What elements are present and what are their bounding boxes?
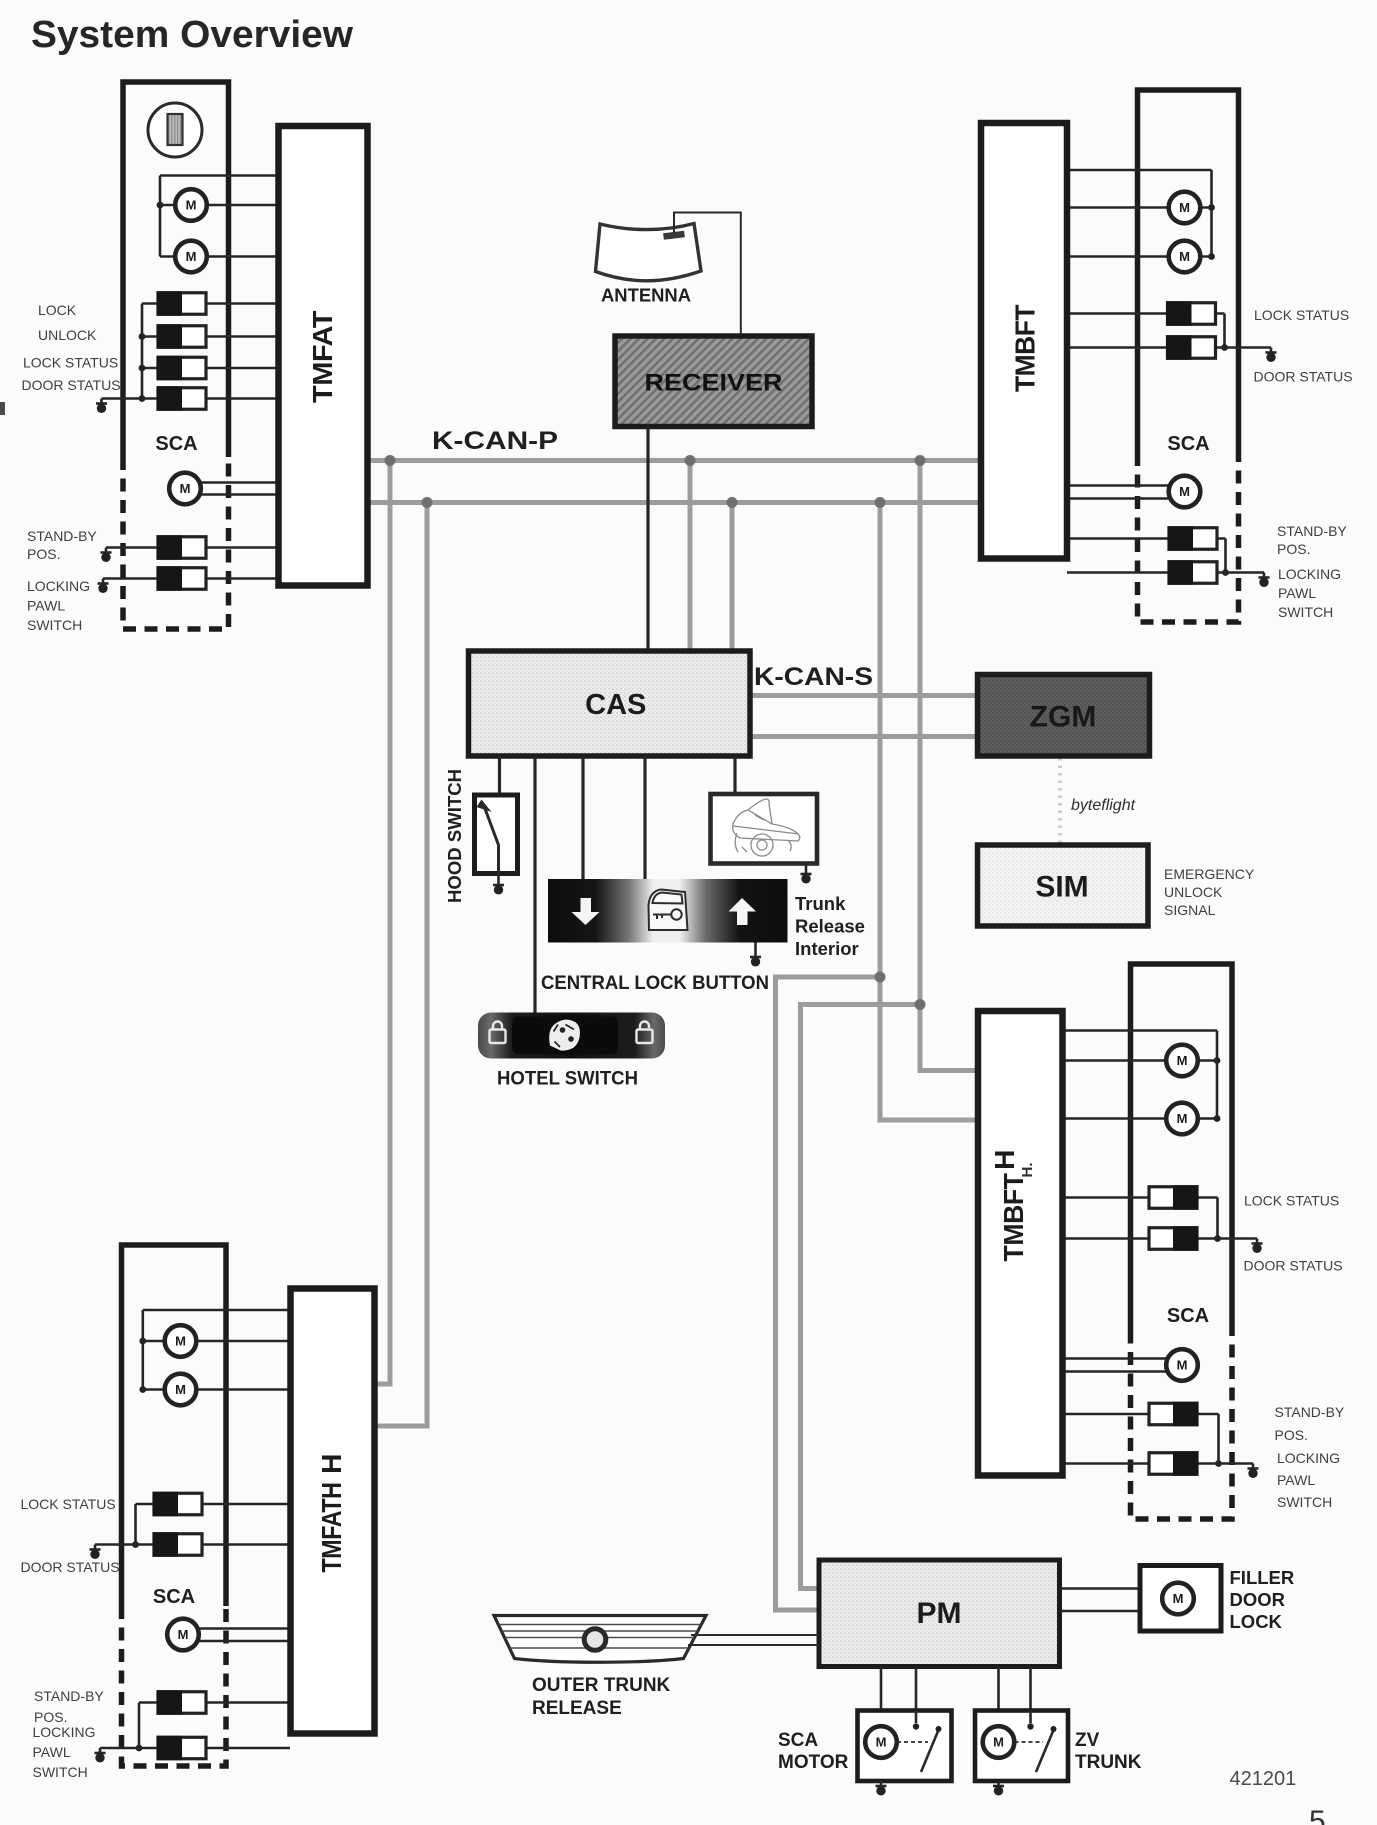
svg-text:K-CAN-S: K-CAN-S	[754, 663, 873, 691]
switch LOCK STATUS TMBFTH	[1149, 1185, 1199, 1210]
ground below ZV trunk	[993, 1781, 1004, 1796]
key lock cylinder	[148, 103, 202, 157]
svg-text:SCA: SCA	[155, 433, 197, 455]
wire UNLOCK row right	[206, 335, 276, 338]
motor SCA motor	[865, 1726, 897, 1758]
svg-text:SCA: SCA	[778, 1730, 818, 1751]
switch STAND-BY TMBFT	[1168, 526, 1218, 551]
svg-text:LOCK: LOCK	[38, 302, 77, 318]
ground DOOR STATUS TMBFTH	[1252, 1239, 1263, 1254]
svg-text:DOOR: DOOR	[1230, 1589, 1286, 1610]
ground below central lock button	[754, 943, 757, 953]
wire K-CAN drop 2 to TMFATH	[374, 503, 427, 1427]
svg-text:Release: Release	[795, 916, 865, 937]
svg-text:UNLOCK: UNLOCK	[1164, 884, 1223, 900]
svg-text:LOCK STATUS: LOCK STATUS	[21, 1496, 116, 1512]
TMFAT door unit outline box	[123, 82, 229, 457]
wire LOCK STATUS row TMBFTH	[1063, 1196, 1218, 1199]
node junction 880-977	[875, 972, 886, 983]
switch DOOR STATUS	[157, 386, 207, 411]
node junction TMBFTH M1	[1214, 1057, 1221, 1064]
TMBFTH door unit outline box	[1131, 964, 1233, 1331]
wire STAND-BY row TMBFT	[1067, 537, 1226, 540]
ground LOCKING PAWL TMFAT	[98, 579, 109, 594]
ground below hood switch	[497, 874, 500, 880]
wire LOCK STATUS row TMFATH	[136, 1503, 291, 1506]
svg-text:LOCKING: LOCKING	[27, 578, 90, 594]
svg-text:MOTOR: MOTOR	[778, 1752, 849, 1773]
svg-text:H: H	[989, 1150, 1020, 1170]
ground below SCA motor	[876, 1781, 887, 1796]
outer trunk release handle	[494, 1616, 706, 1663]
svg-text:H: H	[316, 1454, 347, 1474]
hood switch S1	[475, 795, 518, 874]
outer trunk release button	[584, 1629, 606, 1651]
node junction TMBFTH bracket	[1214, 1235, 1221, 1242]
wire STAND-BY row TMFATH	[139, 1701, 290, 1704]
central lock button down arrow	[572, 898, 600, 925]
node junction TMBFTH M2	[1214, 1115, 1221, 1122]
motor SCA TMBFTH	[1166, 1349, 1198, 1381]
ground DOOR STATUS TMFATH	[90, 1545, 101, 1560]
module TMBFT box	[981, 123, 1067, 559]
svg-text:ANTENNA: ANTENNA	[601, 285, 691, 306]
wire TMFATH motor bracket	[143, 1310, 290, 1390]
svg-text:HOTEL SWITCH: HOTEL SWITCH	[497, 1068, 638, 1090]
node junction bracket dots	[139, 333, 146, 340]
switch LOCK STATUS TMBFT	[1166, 301, 1216, 326]
svg-text:TMFAT: TMFAT	[307, 311, 338, 403]
switch LOCK STATUS TMFATH	[153, 1492, 203, 1517]
motor M1 TMBFT	[1169, 192, 1201, 224]
svg-text:SWITCH: SWITCH	[27, 617, 82, 633]
SIM module box	[978, 845, 1149, 926]
wire motor M1 leads	[160, 204, 276, 207]
wire K-CAN-S bus line 1	[750, 693, 980, 698]
motor filler door lock	[1162, 1583, 1194, 1615]
motor M2 TMBFTH	[1166, 1103, 1198, 1135]
wire K-CAN branch to PM upper	[776, 977, 881, 1610]
switch STAND-BY TMFAT	[157, 535, 207, 560]
svg-text:TMBFT: TMBFT	[1010, 305, 1041, 392]
ground DOOR STATUS left	[96, 399, 107, 414]
svg-text:System Overview: System Overview	[31, 14, 353, 56]
wire SCA motor leads TMBFTH	[1063, 1359, 1167, 1372]
switch LOCKING PAWL TMFAT	[157, 566, 207, 591]
wire CAS pin to hotel switch	[533, 756, 536, 1013]
wire DOOR STATUS row TMFATH to ground	[95, 1543, 290, 1546]
node junction TMFATH bracket	[132, 1541, 139, 1548]
motor M1 TMBFTH	[1166, 1045, 1198, 1077]
wire byteflight link ZGM-SIM	[1058, 758, 1062, 843]
svg-text:POS.: POS.	[1277, 541, 1310, 557]
wire K-CAN-P bus line 2	[366, 500, 981, 505]
svg-text:421201: 421201	[1230, 1768, 1297, 1790]
svg-text:STAND-BY: STAND-BY	[1277, 523, 1347, 539]
receiver box U-RECEIVER	[615, 336, 812, 427]
antenna (windshield symbol)	[596, 224, 702, 281]
switch DOOR STATUS TMBFTH	[1149, 1226, 1199, 1251]
svg-text:POS.: POS.	[1275, 1427, 1308, 1443]
wire motor M2 leads TMFATH	[143, 1388, 290, 1391]
wire K-CAN drop to CAS pin 1	[688, 461, 693, 650]
wire sca bracket TMBFTH	[1217, 1414, 1220, 1464]
svg-text:TRUNK: TRUNK	[1075, 1752, 1142, 1773]
svg-text:CENTRAL LOCK BUTTON: CENTRAL LOCK BUTTON	[541, 972, 769, 994]
svg-text:STAND-BY: STAND-BY	[27, 528, 97, 544]
node junction sca bracket TMFATH	[136, 1745, 143, 1752]
svg-text:Trunk: Trunk	[795, 893, 846, 914]
switch UNLOCK	[157, 324, 207, 349]
wire antenna to receiver	[674, 213, 741, 339]
wire switch bracket TMBFT	[1223, 314, 1226, 348]
svg-text:SWITCH: SWITCH	[33, 1764, 88, 1780]
CAS module box	[469, 651, 751, 756]
node junction TMFATH M1	[139, 1338, 146, 1345]
TMFAT SCA dashed box	[123, 457, 229, 629]
svg-text:K-CAN-P: K-CAN-P	[432, 427, 558, 455]
switch LOCKING PAWL TMBFT	[1168, 560, 1218, 585]
wire outer trunk release to PM	[688, 1635, 819, 1645]
ground STAND-BY TMFAT	[101, 548, 112, 563]
TMFATH door unit outline box	[122, 1245, 227, 1606]
wire CAS pin to central lock button right	[643, 756, 646, 879]
wire CAS pin to hood switch	[498, 756, 501, 795]
svg-text:EMERGENCY: EMERGENCY	[1164, 866, 1255, 882]
ground LOCKING PAWL TMBFTH	[1248, 1464, 1259, 1479]
scan artifact left edge	[0, 402, 5, 415]
wire LOCK STATUS row right	[206, 367, 276, 370]
svg-text:PAWL: PAWL	[27, 598, 65, 614]
module TMFAT box	[279, 126, 368, 586]
wire PM to filler door lock	[1060, 1589, 1141, 1612]
svg-text:TMFATH: TMFATH	[316, 1483, 347, 1573]
ZV trunk box	[975, 1711, 1068, 1782]
node junction bus2-880	[875, 497, 886, 508]
PM module box	[819, 1560, 1060, 1667]
wire DOOR STATUS row to ground	[102, 397, 277, 400]
TMBFTH SCA dashed box	[1131, 1331, 1233, 1520]
wire PM to SCA motor box	[881, 1667, 916, 1712]
wire LOCK STATUS row TMBFT	[1067, 312, 1225, 315]
wire receiver to CAS	[646, 426, 649, 651]
TMFATH SCA dashed box	[122, 1606, 227, 1766]
motor SCA TMFATH	[167, 1619, 199, 1651]
car sketch	[733, 799, 800, 856]
ground below trunk release box	[805, 864, 808, 870]
svg-text:SIM: SIM	[1035, 871, 1088, 904]
wire STAND-BY row	[106, 546, 276, 549]
switch STAND-BY TMFATH	[157, 1690, 207, 1715]
node junction TMBFT bracket	[1221, 344, 1228, 351]
node junction sca bracket TMBFTH	[1215, 1460, 1222, 1467]
svg-text:Interior: Interior	[795, 938, 859, 959]
switch DOOR STATUS TMBFT	[1166, 335, 1216, 360]
svg-text:SIGNAL: SIGNAL	[1164, 902, 1216, 918]
hotel switch open padlock icon	[637, 1022, 653, 1044]
svg-text:SCA: SCA	[1167, 433, 1209, 455]
switch LOCK STATUS	[157, 356, 207, 381]
motor M2 TMBFT	[1169, 241, 1201, 273]
node junction bus1-390	[385, 455, 396, 466]
switch DOOR STATUS TMFATH	[153, 1532, 203, 1557]
wire K-CAN drop to TMBFTH lower	[880, 503, 977, 1121]
wire TMBFT motor bracket	[1067, 170, 1212, 257]
switch STAND-BY TMBFTH	[1149, 1402, 1199, 1427]
antenna element	[664, 234, 685, 237]
module TMBFTH box	[978, 1011, 1063, 1476]
node junction 920-1004	[915, 999, 926, 1010]
wire TMBFTH motor bracket	[1063, 1031, 1218, 1119]
svg-text:ZV: ZV	[1075, 1730, 1100, 1751]
svg-text:byteflight: byteflight	[1071, 797, 1136, 814]
node junction M1 left	[157, 202, 164, 209]
ground DOOR STATUS TMBFT	[1266, 348, 1277, 363]
wire CAS pin to central lock button left	[581, 756, 584, 879]
wire motor M1 leads TMBFT	[1067, 206, 1212, 209]
wire K-CAN-S bus line 2	[750, 734, 980, 739]
wire motor M2 leads TMBFTH	[1063, 1117, 1218, 1120]
motor SCA TMBFT	[1169, 476, 1201, 508]
switch LOCKING PAWL TMBFTH	[1149, 1451, 1199, 1476]
node junction TMBFT M2	[1208, 253, 1215, 260]
wire STAND-BY row TMBFTH	[1063, 1413, 1219, 1416]
svg-text:HOOD SWITCH: HOOD SWITCH	[444, 769, 465, 903]
node junction bus1-920	[915, 455, 926, 466]
wire SCA motor leads TMFATH	[199, 1629, 290, 1642]
svg-text:SWITCH: SWITCH	[1278, 604, 1333, 620]
node junction TMFATH M2	[139, 1386, 146, 1393]
svg-text:ZGM: ZGM	[1030, 701, 1097, 734]
wire K-CAN drop to TMBFTH upper	[920, 461, 977, 1071]
motor ZV trunk	[983, 1726, 1015, 1758]
SCA motor switch	[915, 1711, 918, 1724]
wire K-CAN-P bus line 1	[366, 458, 981, 463]
wire K-CAN branch to PM lower	[801, 1005, 921, 1589]
node junction sca bracket TMBFT	[1222, 569, 1229, 576]
hotel switch key fob icon	[549, 1020, 580, 1051]
svg-text:SWITCH: SWITCH	[1277, 1494, 1332, 1510]
hotel switch closed padlock icon	[490, 1022, 506, 1044]
wire switch bracket TMFAT	[142, 304, 158, 399]
svg-text:TMBFT: TMBFT	[998, 1173, 1029, 1261]
motor M1 TMFATH	[165, 1325, 197, 1357]
filler door lock box	[1140, 1566, 1221, 1632]
svg-text:LOCKING: LOCKING	[33, 1724, 96, 1740]
svg-text:FILLER: FILLER	[1230, 1567, 1295, 1588]
svg-text:SCA: SCA	[153, 1586, 195, 1608]
motor M2 TMFATH	[165, 1374, 197, 1406]
wire LOCKING PAWL row	[103, 577, 276, 580]
svg-text:LOCK STATUS: LOCK STATUS	[1244, 1193, 1339, 1209]
central lock button door-key icon	[649, 890, 688, 931]
wire motor M1 leads TMFATH	[143, 1340, 290, 1343]
svg-text:POS.: POS.	[27, 546, 60, 562]
module TMFATH box	[291, 1289, 375, 1734]
wire motor M2 leads	[160, 255, 276, 258]
svg-text:DOOR STATUS: DOOR STATUS	[22, 377, 121, 393]
svg-text:DOOR STATUS: DOOR STATUS	[21, 1559, 120, 1575]
wire sca bracket TMFATH	[138, 1703, 141, 1749]
svg-text:PAWL: PAWL	[33, 1744, 71, 1760]
wire switch bracket TMFATH	[134, 1504, 137, 1545]
wire LOCKING PAWL row TMFATH	[100, 1747, 290, 1750]
motor M2 TMFAT	[175, 241, 207, 273]
wire PM to ZV trunk box	[999, 1667, 1031, 1712]
svg-text:LOCK STATUS: LOCK STATUS	[23, 355, 118, 371]
svg-text:DOOR STATUS: DOOR STATUS	[1244, 1258, 1343, 1274]
hotel switch S3	[478, 1013, 665, 1059]
svg-text:LOCKING: LOCKING	[1278, 566, 1341, 582]
svg-text:PAWL: PAWL	[1277, 1472, 1315, 1488]
motor SCA TMFAT	[169, 473, 201, 505]
wire LOCKING PAWL row TMBFTH	[1063, 1462, 1254, 1465]
svg-text:RELEASE: RELEASE	[532, 1698, 622, 1719]
wire sca bracket TMBFT	[1224, 539, 1227, 573]
wire DOOR STATUS row TMBFTH to ground	[1063, 1237, 1258, 1240]
svg-text:SCA: SCA	[1167, 1305, 1209, 1327]
node junction bus1-690	[685, 455, 696, 466]
wire K-CAN drop to TMFATH	[374, 461, 390, 1385]
TMBFT SCA dashed box	[1138, 453, 1239, 622]
node junction bus2-427	[422, 497, 433, 508]
motor M1 TMFAT	[175, 189, 207, 221]
svg-text:LOCK STATUS: LOCK STATUS	[1254, 307, 1349, 323]
wire SCA motor leads TMFAT	[201, 483, 277, 495]
ZGM module box	[978, 675, 1150, 757]
SCA motor box	[858, 1711, 952, 1782]
central lock button up arrow	[729, 898, 757, 925]
ZV trunk switch	[1029, 1711, 1032, 1724]
wire K-CAN drop to CAS pin 2	[730, 503, 735, 650]
svg-text:STAND-BY: STAND-BY	[34, 1688, 104, 1704]
wire motor M1 leads TMBFTH	[1063, 1059, 1218, 1062]
ground LOCKING PAWL TMBFT	[1259, 573, 1270, 588]
wire SCA motor leads TMBFT	[1067, 486, 1169, 499]
switch LOCKING PAWL TMFATH	[157, 1736, 207, 1761]
svg-text:STAND-BY: STAND-BY	[1275, 1404, 1345, 1420]
TMBFT door unit outline box	[1138, 90, 1239, 453]
svg-text:LOCK: LOCK	[1230, 1611, 1283, 1632]
hood switch blade	[484, 806, 499, 874]
ground LOCKING PAWL TMFATH	[95, 1748, 106, 1763]
svg-text:UNLOCK: UNLOCK	[38, 327, 97, 343]
wire LOCK row	[142, 302, 276, 305]
wire LOCKING PAWL row TMBFT	[1067, 571, 1264, 574]
node junction TMBFT M1	[1208, 204, 1215, 211]
trunk release interior box (car picture)	[711, 794, 818, 864]
svg-text:H.: H.	[1019, 1163, 1036, 1178]
switch LOCK	[157, 291, 207, 316]
wire switch bracket TMBFTH	[1216, 1198, 1219, 1239]
node junction bus2-732	[727, 497, 738, 508]
svg-text:OUTER TRUNK: OUTER TRUNK	[532, 1675, 671, 1696]
svg-text:PM: PM	[917, 1597, 962, 1630]
svg-text:RECEIVER: RECEIVER	[645, 370, 783, 397]
wire DOOR STATUS row TMBFT to ground	[1067, 346, 1271, 349]
wire motor M2 leads TMBFT	[1067, 255, 1212, 258]
svg-text:LOCKING: LOCKING	[1277, 1450, 1340, 1466]
svg-text:POS.: POS.	[34, 1709, 67, 1725]
wire TMFAT motor bracket	[160, 176, 276, 257]
svg-text:PAWL: PAWL	[1278, 585, 1316, 601]
wire CAS pin to trunk release box	[733, 756, 736, 794]
central lock button S2	[548, 879, 788, 943]
svg-text:5: 5	[1309, 1805, 1326, 1825]
svg-text:DOOR STATUS: DOOR STATUS	[1254, 369, 1353, 385]
svg-text:CAS: CAS	[585, 689, 646, 721]
